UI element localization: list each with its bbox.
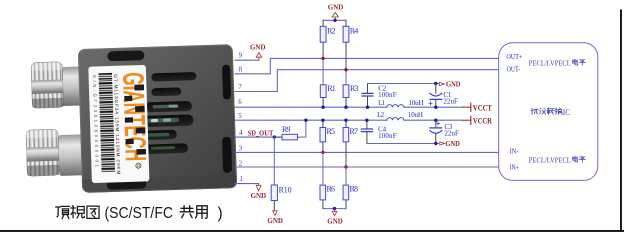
bottom border line (0, 230, 624, 232)
svg-text:22uF: 22uF (444, 130, 459, 138)
pin 4 wire (SD_OUT) (235, 136, 282, 138)
wire L1 to C1 node (404, 106, 463, 108)
FC connector lower (26, 128, 85, 177)
svg-text:GND: GND (327, 218, 343, 226)
resistor R7 (343, 120, 358, 167)
svg-text:(SC/ST/FC: (SC/ST/FC (105, 205, 174, 222)
resistor R2 (320, 20, 335, 58)
wire L2 to C3 node (404, 119, 463, 121)
svg-text:10uH: 10uH (408, 111, 423, 119)
wire R7 node down to R8 (345, 167, 347, 185)
junction pin3 R5 (red) (321, 151, 324, 154)
vent slot 3 (145, 101, 192, 112)
svg-text:1: 1 (239, 175, 243, 183)
port VCCR (463, 115, 492, 125)
FC connector upper (31, 61, 84, 108)
capacitor C1 22uF polarized (429, 84, 458, 108)
svg-text:GND: GND (267, 217, 283, 225)
pin 9 wire (235, 59, 259, 61)
svg-text:6: 6 (238, 98, 242, 106)
svg-text:2: 2 (239, 159, 243, 167)
svg-text:SD_OUT: SD_OUT (248, 129, 274, 138)
svg-text:IN-: IN- (510, 148, 520, 156)
resistor R3 (343, 84, 358, 107)
inductor L2 10uH (377, 111, 423, 120)
svg-text:9: 9 (239, 51, 243, 59)
capacitor C2 100nF (362, 84, 397, 108)
top GND rail wire above R2 R4 (323, 19, 346, 21)
GND symbol below R10 (273, 211, 278, 216)
GND wire above C2 C1 (368, 83, 439, 85)
svg-text:IC: IC (563, 108, 571, 117)
junction rail3 R1 (321, 106, 324, 109)
junction rail2 R4 (red) (344, 68, 347, 71)
wire R10 vertical from pin4 (273, 137, 275, 185)
svg-text:R2: R2 (327, 26, 336, 35)
wire R2 node down to R1 (322, 58, 324, 84)
module photo (top view of SC/ST/FC fiber transceiver) (23, 44, 237, 194)
pin 2 wire to IN+ (235, 166, 499, 168)
svg-text:R: R (137, 163, 140, 168)
junction rail3 R3 (344, 106, 347, 109)
resistor R9 (horizontal, SD pull-up) (274, 120, 306, 140)
resistor R8 (343, 185, 358, 209)
svg-text:VCCR: VCCR (473, 115, 493, 125)
junction rail3 C2 (366, 106, 369, 109)
vent slot 2 (151, 87, 181, 96)
svg-text:4: 4 (239, 129, 243, 137)
svg-text:OUT+: OUT+ (506, 53, 522, 61)
right bar upper (222, 65, 231, 100)
svg-text:R6: R6 (327, 185, 336, 194)
GND symbol top (332, 13, 338, 21)
resistor R6 (320, 185, 335, 209)
vent slot 5 (142, 130, 177, 140)
GND wire below C4 C3 (367, 143, 439, 145)
wire R4 node down to R3 (345, 70, 347, 85)
svg-text:10uH: 10uH (409, 99, 424, 107)
right bar lower (222, 137, 232, 173)
right border line (620, 9, 622, 232)
pin 6 wire (VCCT rail to L1) (235, 106, 387, 108)
svg-text:GND: GND (445, 140, 460, 148)
label protocol converter IC (center) (531, 108, 538, 114)
svg-text:R9: R9 (282, 125, 291, 134)
svg-text:): ) (218, 205, 223, 222)
svg-text:R1: R1 (327, 84, 336, 93)
svg-text:8: 8 (239, 66, 243, 74)
GND arrow right of C3 (440, 142, 445, 145)
svg-text:IN+: IN+ (510, 163, 520, 171)
svg-text:L1: L1 (378, 99, 386, 107)
svg-text:R5: R5 (327, 127, 336, 136)
junction rail4 R7 (344, 119, 347, 122)
svg-text:7: 7 (238, 83, 242, 91)
pin 8 wire to OUT+ rail (235, 58, 499, 73)
resistor R5 (320, 120, 335, 152)
white product label (88, 65, 153, 183)
GND symbol below R6 R8 (332, 209, 337, 216)
svg-text:R3: R3 (350, 84, 359, 93)
vent slot 6 (142, 143, 188, 154)
wire joining R6 R8 bottoms (323, 208, 346, 210)
GND arrow right of C1 (439, 82, 444, 85)
svg-text:L2: L2 (377, 111, 385, 119)
GND symbol at pin 1 (256, 184, 261, 191)
bottom latch slot (107, 179, 147, 190)
resistor R10 (271, 185, 291, 210)
junction GND wire C3 (434, 142, 437, 145)
junction rail1 R2 (red) (321, 57, 324, 60)
module body (78, 44, 237, 193)
junction top GND (333, 19, 336, 22)
pin 1 wire (235, 183, 258, 185)
vent slot 1 (151, 72, 196, 82)
pin 7 wire to OUT- rail (235, 70, 499, 92)
svg-text:100nF: 100nF (378, 91, 397, 99)
svg-text:OUT-: OUT- (507, 66, 521, 74)
pin 5 wire (VCCR rail to L2) (235, 119, 387, 121)
svg-text:R10: R10 (279, 185, 292, 194)
junction GND wire C1 (434, 82, 437, 85)
junction rail4 C4 (365, 119, 368, 122)
junction pin2 R7 (red) (344, 165, 347, 168)
op-amp / protocol converter IC U1 box (499, 43, 598, 181)
svg-text:GND: GND (446, 80, 461, 88)
top latch slot (107, 50, 144, 61)
svg-text:GND: GND (251, 192, 267, 200)
junction rail4 C3 (434, 119, 437, 122)
port VCCT (463, 102, 492, 112)
pin 3 wire to IN- (235, 151, 499, 153)
svg-text:22uF: 22uF (443, 97, 458, 105)
junction R6R8 GND (333, 207, 336, 210)
inductor L1 10uH (378, 99, 423, 107)
svg-text:R4: R4 (350, 26, 359, 35)
vent slot 4 (143, 114, 193, 127)
junction rail3 C1 (434, 106, 437, 109)
junction rail4 R5 (321, 119, 324, 122)
GND symbol at pin 9 (256, 53, 262, 61)
svg-text:VCCT: VCCT (473, 102, 492, 112)
svg-text:PECL/LVPECL: PECL/LVPECL (529, 58, 571, 67)
svg-text:GND: GND (250, 44, 266, 52)
junction pin4 R10/R9 (273, 135, 276, 138)
svg-text:PECL/LVPECL: PECL/LVPECL (529, 155, 571, 164)
svg-text:5: 5 (238, 112, 242, 120)
capacitor C4 100nF (361, 120, 396, 143)
svg-text:R8: R8 (350, 185, 359, 194)
capacitor C3 22uF polarized (430, 120, 459, 143)
junction rail4 R9 (304, 119, 307, 122)
svg-text:100nF: 100nF (378, 132, 397, 140)
resistor R4 (343, 20, 358, 69)
svg-text:GND: GND (328, 4, 344, 12)
resistor R1 (320, 84, 335, 107)
svg-text:3: 3 (239, 145, 243, 153)
svg-text:R7: R7 (350, 127, 359, 136)
wire R5 node down to R6 (322, 152, 324, 185)
caption: top view (SC/ST/FC shared) (56, 205, 223, 222)
